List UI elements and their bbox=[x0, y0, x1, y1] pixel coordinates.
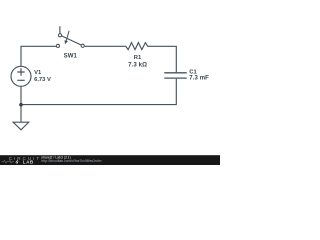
svg-text:http://circuitlab.com/c/9se7kv: http://circuitlab.com/c/9se7kv58hw3rcfm bbox=[41, 159, 101, 163]
svg-text:V1: V1 bbox=[34, 70, 42, 76]
svg-text:LAB: LAB bbox=[23, 159, 34, 164]
svg-text:7.3 kΩ: 7.3 kΩ bbox=[128, 62, 147, 69]
svg-text:7.3 mF: 7.3 mF bbox=[189, 76, 209, 82]
svg-text:SW1: SW1 bbox=[64, 53, 78, 59]
svg-text:6.73 V: 6.73 V bbox=[34, 77, 51, 83]
svg-text:C1: C1 bbox=[189, 69, 197, 75]
svg-text:R1: R1 bbox=[134, 55, 142, 61]
